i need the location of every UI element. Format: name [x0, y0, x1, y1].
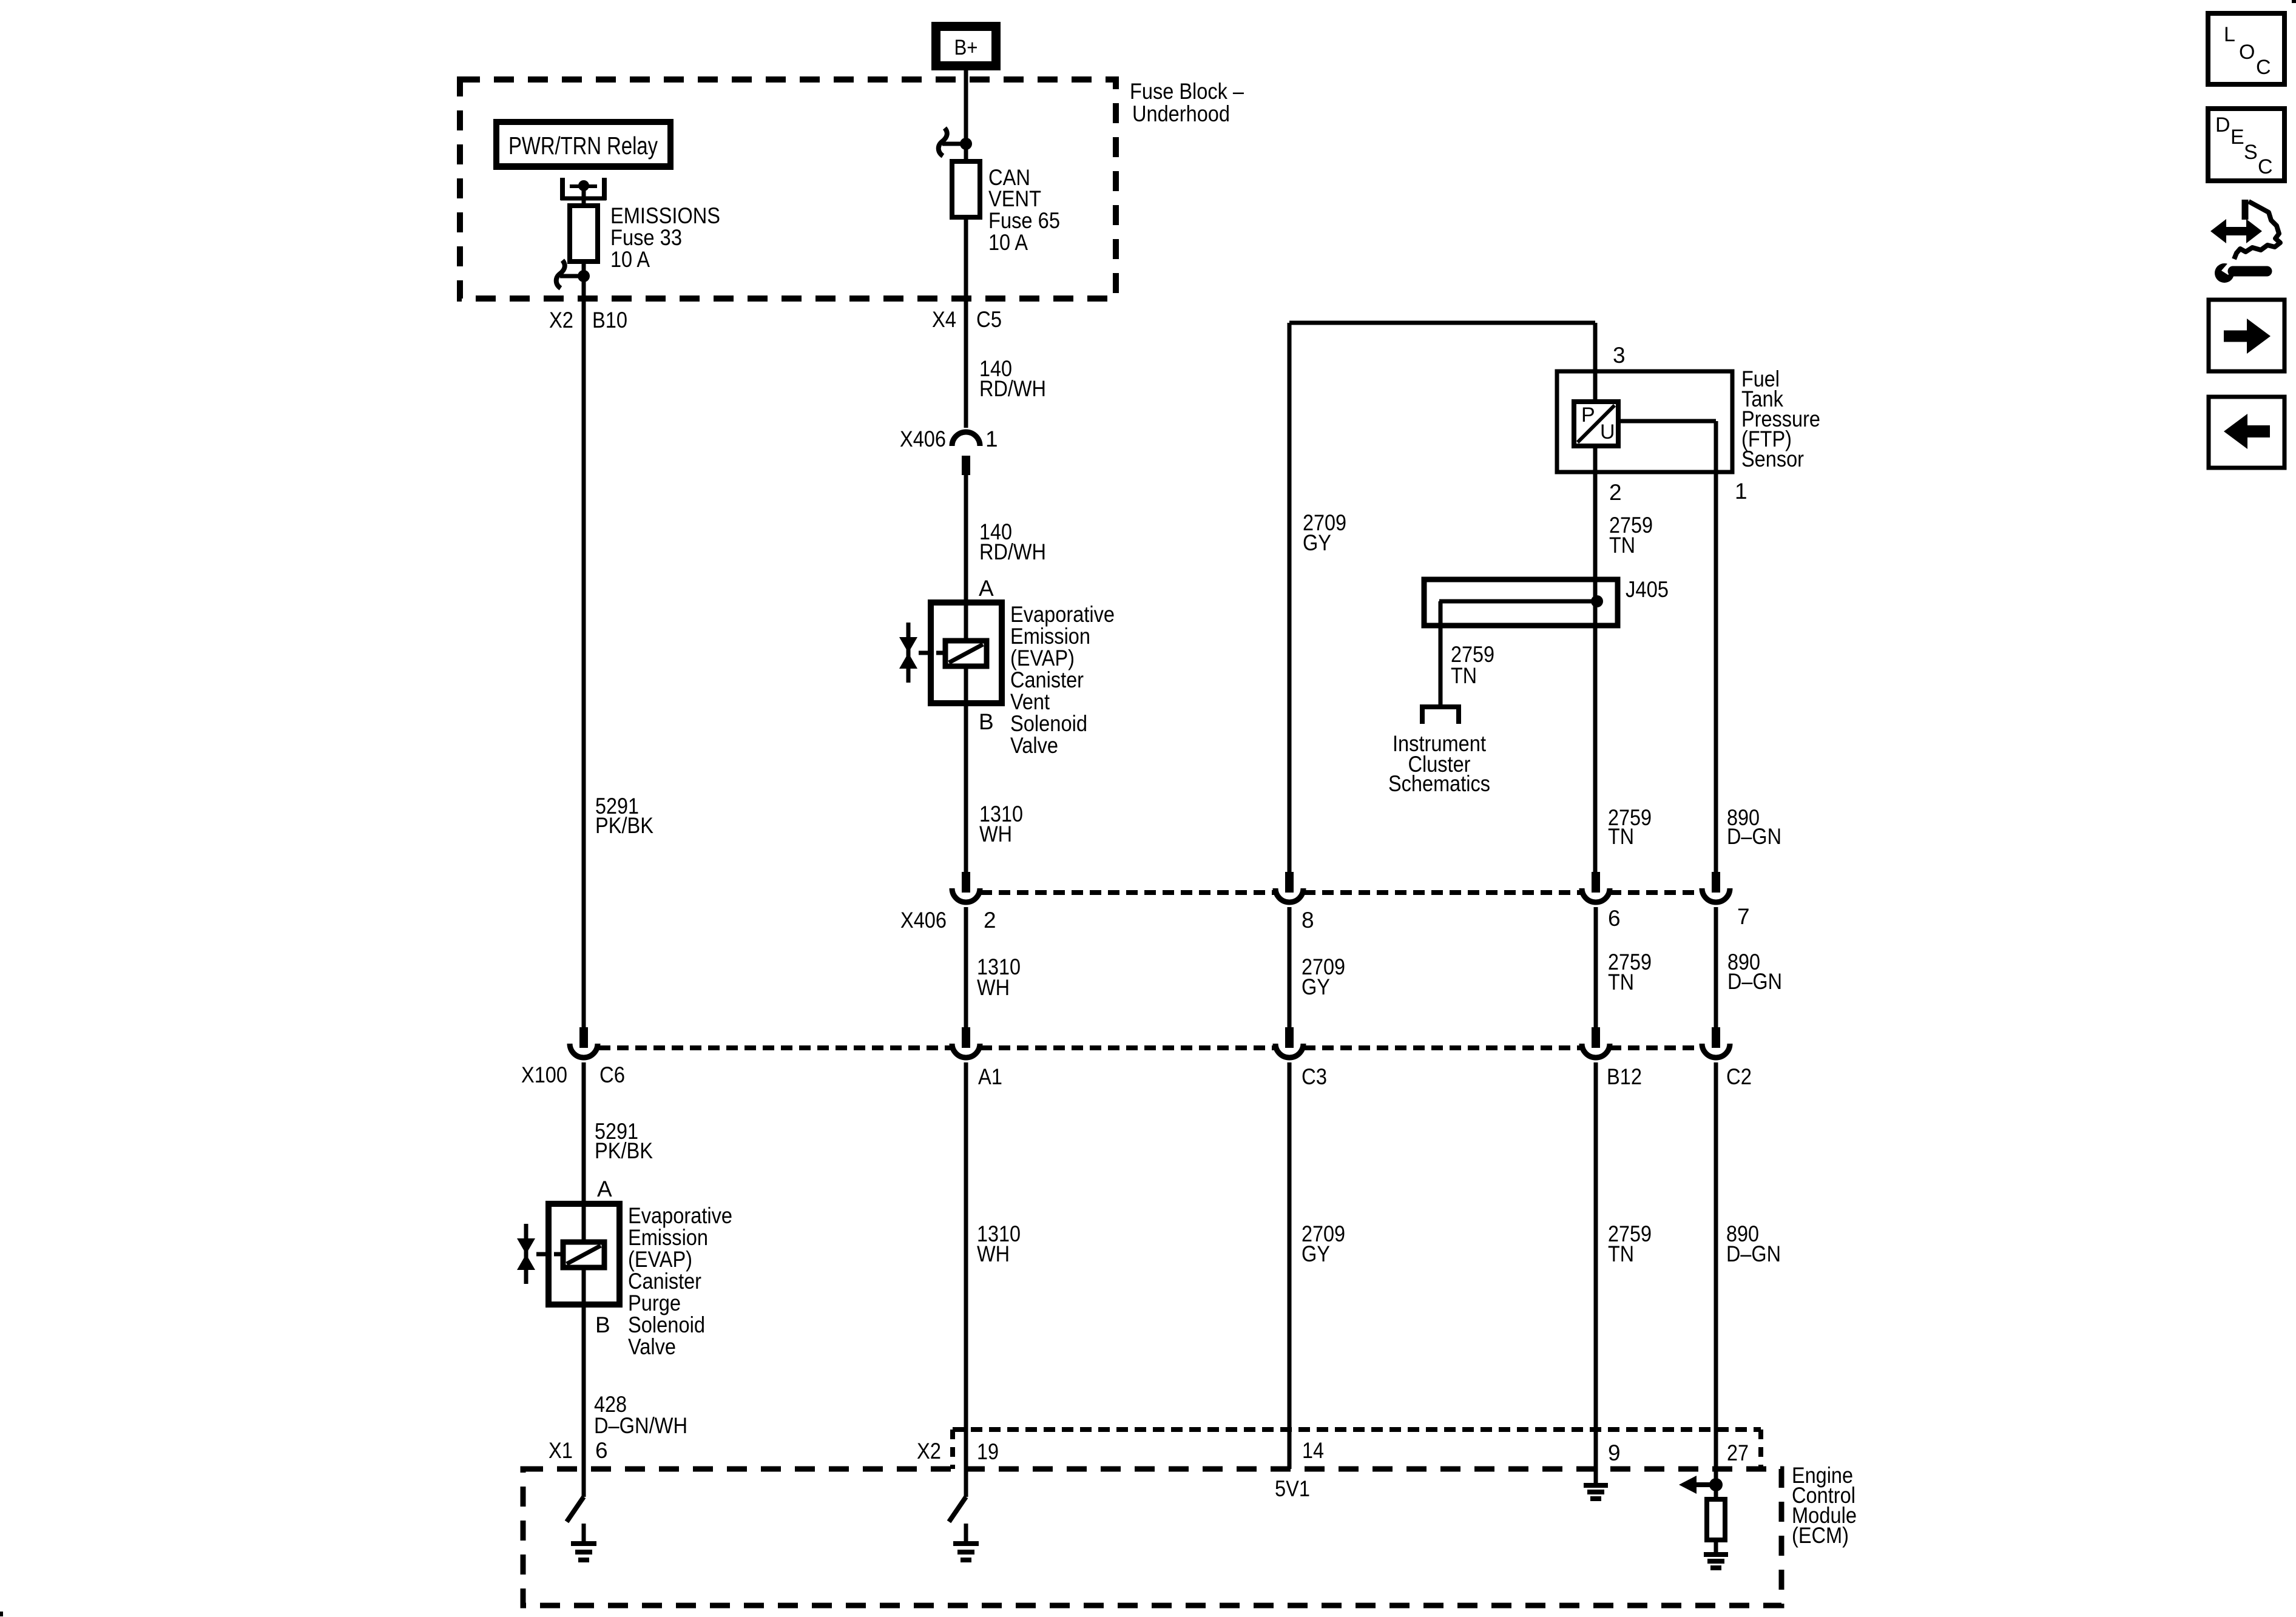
page artifacts: [2292, 0, 2296, 3]
svg-text:1: 1: [985, 427, 998, 451]
svg-text:X100: X100: [521, 1062, 567, 1087]
PWR/TRN Relay box: [493, 119, 674, 170]
svg-text:Fuse Block –: Fuse Block –: [1130, 79, 1244, 104]
svg-text:27: 27: [1727, 1440, 1749, 1465]
J405 internal branch wire: [1439, 599, 1596, 604]
svg-text:D–GN: D–GN: [1726, 1241, 1781, 1266]
connector X406 pin 7: [1712, 872, 1720, 893]
ECM internal signal node pin 27: [1709, 1478, 1723, 1491]
svg-text:Sensor: Sensor: [1741, 447, 1804, 471]
inline connector X406 pin 1: [952, 432, 980, 446]
B+ battery feed symbol: [931, 22, 1001, 70]
ECM connector X2 dashed row: [953, 1427, 1761, 1432]
svg-text:WH: WH: [977, 1241, 1010, 1266]
svg-text:X2: X2: [549, 308, 573, 333]
svg-text:Canister: Canister: [1010, 667, 1084, 692]
svg-text:Emission: Emission: [628, 1225, 708, 1250]
svg-text:X406: X406: [900, 427, 946, 451]
Fuel Tank Pressure (FTP) Sensor box: [1557, 371, 1732, 472]
icon tool / connector view: [2242, 200, 2249, 220]
svg-text:RD/WH: RD/WH: [979, 539, 1046, 564]
connector X406 pin 6: [1592, 872, 1600, 893]
svg-text:S: S: [2244, 141, 2258, 164]
wire X406-2 to X100-A1: [964, 907, 968, 1027]
svg-text:1: 1: [1735, 479, 1747, 504]
svg-text:O: O: [2239, 41, 2255, 64]
svg-text:GY: GY: [1302, 974, 1330, 999]
svg-text:C6: C6: [599, 1062, 625, 1087]
FTP pin 3 wire: [1593, 323, 1598, 402]
fuse EMISSIONS Fuse 33 10 A: [570, 206, 598, 262]
wire from relay bus to Fuse 33: [582, 189, 586, 207]
svg-text:10 A: 10 A: [988, 230, 1028, 255]
FTP pin 2 wire: [1593, 446, 1598, 579]
svg-text:5V1: 5V1: [1275, 1476, 1310, 1501]
svg-text:Evaporative: Evaporative: [1010, 602, 1115, 627]
svg-text:Underhood: Underhood: [1132, 101, 1230, 126]
svg-text:(ECM): (ECM): [1792, 1523, 1849, 1548]
wire splice to connector X2-B10 and down to X100: [582, 276, 586, 1027]
svg-text:TN: TN: [1608, 1241, 1634, 1266]
svg-text:C5: C5: [976, 307, 1002, 332]
svg-text:14: 14: [1302, 1438, 1324, 1463]
svg-text:6: 6: [1608, 906, 1621, 931]
svg-text:B12: B12: [1607, 1064, 1642, 1089]
svg-text:2: 2: [984, 908, 996, 933]
svg-text:U: U: [1600, 420, 1615, 444]
connector X100 pin C6: [579, 1027, 588, 1048]
svg-text:Fuse 65: Fuse 65: [988, 208, 1060, 233]
connector X100 pin C2: [1712, 1027, 1720, 1048]
svg-text:6: 6: [595, 1438, 608, 1463]
wire 2709 GY down to ECM 5V1: [1288, 1062, 1292, 1469]
wire 2709 GY top horizontal run: [1289, 321, 1595, 325]
svg-text:(EVAP): (EVAP): [628, 1247, 692, 1272]
off-page connector to instrument cluster: [1420, 704, 1461, 709]
svg-text:X406: X406: [900, 908, 947, 933]
signal arrow at pin 27: [1697, 1482, 1716, 1487]
svg-text:C: C: [2256, 56, 2271, 79]
svg-text:C2: C2: [1726, 1064, 1752, 1089]
wire 2759 TN down to ECM pin 9: [1594, 1062, 1598, 1483]
splice curl below Fuse 33: [560, 274, 584, 279]
connector X406 pin 2: [962, 872, 970, 893]
svg-text:B: B: [595, 1312, 610, 1337]
svg-text:A: A: [979, 576, 994, 601]
svg-text:A: A: [597, 1176, 612, 1201]
svg-text:(EVAP): (EVAP): [1010, 646, 1075, 670]
wire splice to Fuse 65: [964, 144, 968, 161]
ECM internal driver switch for pin 19: [949, 1497, 966, 1522]
svg-text:RD/WH: RD/WH: [979, 376, 1046, 401]
svg-text:GY: GY: [1303, 530, 1331, 555]
icon wrench: [2215, 263, 2234, 283]
svg-text:9: 9: [1608, 1440, 1621, 1465]
svg-text:TN: TN: [1608, 970, 1634, 994]
wire X406-7 to X100-C2: [1714, 907, 1718, 1027]
svg-text:EMISSIONS: EMISSIONS: [610, 203, 720, 228]
fuse CAN VENT Fuse 65 10 A: [952, 161, 980, 217]
ECM internal pull resistor: [1714, 1485, 1718, 1499]
svg-text:D–GN: D–GN: [1727, 824, 1781, 849]
icon LOC box: [2208, 13, 2284, 84]
wire 890 D-GN down to ECM pin 27: [1714, 1062, 1718, 1485]
svg-text:2: 2: [1609, 480, 1622, 505]
svg-text:Schematics: Schematics: [1388, 771, 1490, 796]
svg-text:B: B: [979, 709, 994, 734]
icon DESC box: [2208, 109, 2284, 181]
svg-text:E: E: [2230, 126, 2244, 149]
svg-text:X4: X4: [932, 307, 956, 332]
connector row X100 dashed line: [599, 1045, 951, 1050]
svg-text:PK/BK: PK/BK: [595, 1138, 653, 1163]
svg-text:C3: C3: [1302, 1064, 1327, 1089]
ECM internal driver switch for pin 6: [582, 1469, 586, 1497]
svg-text:TN: TN: [1609, 533, 1635, 558]
ECM internal ground for pin 19: [964, 1524, 968, 1544]
wire X406-1 to EVAP vent valve: [964, 475, 968, 603]
wire X406-8 to X100-C3: [1288, 907, 1292, 1027]
wire 2709 GY vertical to X406 pin 8: [1288, 323, 1292, 872]
svg-text:WH: WH: [977, 975, 1010, 1000]
svg-text:L: L: [2224, 23, 2235, 46]
svg-text:A1: A1: [978, 1064, 1002, 1089]
svg-text:Valve: Valve: [1010, 733, 1058, 758]
wire vent valve B to connector row X406 pin 2: [964, 703, 968, 872]
svg-text:Valve: Valve: [628, 1334, 676, 1359]
connector X100 pin B12: [1592, 1027, 1600, 1048]
svg-text:D–GN/WH: D–GN/WH: [594, 1413, 687, 1438]
svg-text:B10: B10: [592, 308, 627, 333]
svg-text:B+: B+: [954, 36, 978, 59]
svg-text:8: 8: [1302, 908, 1314, 933]
svg-text:TN: TN: [1608, 824, 1634, 849]
Engine Control Module (ECM) dashed box: [523, 1469, 1781, 1605]
connector X100 pin C3: [1285, 1027, 1294, 1048]
wire FTP pin2 through J405 to X406 pin 6: [1593, 579, 1598, 872]
svg-text:Evaporative: Evaporative: [628, 1203, 732, 1228]
wire X100-C6 to EVAP purge valve: [582, 1062, 586, 1204]
svg-text:Vent: Vent: [1010, 689, 1050, 714]
svg-text:X2: X2: [917, 1439, 941, 1463]
wire B+ down into fuse block: [964, 70, 968, 144]
FTP sensor P/U transducer square: [1574, 402, 1618, 446]
ECM internal ground for pin 27: [1704, 1552, 1728, 1557]
svg-text:3: 3: [1613, 343, 1626, 368]
svg-text:TN: TN: [1451, 663, 1477, 688]
icon back (left arrow) box: [2209, 397, 2284, 468]
fuse block - underhood (dashed box): [460, 79, 1116, 299]
svg-text:Solenoid: Solenoid: [628, 1312, 705, 1337]
wire purge valve B to ECM X1-6: [582, 1305, 586, 1469]
svg-text:X1: X1: [549, 1438, 573, 1463]
ECM internal ground for pin 9: [1584, 1483, 1608, 1488]
svg-text:D–GN: D–GN: [1727, 969, 1782, 994]
ECM internal ground for pin 6: [582, 1524, 586, 1544]
wire FTP pin 1 down to X406 pin 7: [1714, 472, 1718, 872]
svg-text:Fuse 33: Fuse 33: [610, 225, 682, 250]
icon next (right arrow) box: [2209, 300, 2284, 371]
svg-text:P: P: [1581, 403, 1595, 427]
svg-text:C: C: [2258, 155, 2273, 178]
svg-text:Canister: Canister: [628, 1269, 701, 1294]
wire X406-6 to X100-B12: [1594, 907, 1598, 1027]
svg-text:GY: GY: [1302, 1241, 1330, 1266]
svg-text:VENT: VENT: [988, 186, 1041, 211]
svg-text:J405: J405: [1626, 577, 1669, 602]
wire vent circuit down to ECM X2-19: [964, 1062, 968, 1497]
connector X100 pin A1: [962, 1027, 970, 1048]
wire resistor to ground: [1714, 1540, 1718, 1555]
svg-text:10 A: 10 A: [610, 247, 650, 272]
svg-text:7: 7: [1737, 904, 1750, 929]
connector X406 pin 8: [1285, 872, 1294, 893]
relay output bus bar: [560, 178, 565, 200]
svg-text:Emission: Emission: [1010, 624, 1090, 649]
svg-text:Purge: Purge: [628, 1291, 681, 1315]
splice curl above CAN VENT fuse: [942, 142, 966, 146]
FTP pin 1 wire (inside sensor): [1618, 419, 1716, 424]
svg-text:WH: WH: [979, 822, 1012, 846]
wire Fuse 65 to X4-C5 and inline connector X406-1: [964, 217, 968, 428]
splice J405 box: [1424, 579, 1618, 626]
wire Fuse 33 to splice: [582, 262, 586, 276]
svg-text:PWR/TRN Relay: PWR/TRN Relay: [508, 132, 658, 160]
svg-text:PK/BK: PK/BK: [595, 813, 653, 838]
svg-text:Solenoid: Solenoid: [1010, 711, 1087, 736]
svg-text:D: D: [2215, 113, 2230, 137]
svg-text:19: 19: [977, 1439, 999, 1464]
connector row X406 dashed line: [981, 890, 1275, 895]
